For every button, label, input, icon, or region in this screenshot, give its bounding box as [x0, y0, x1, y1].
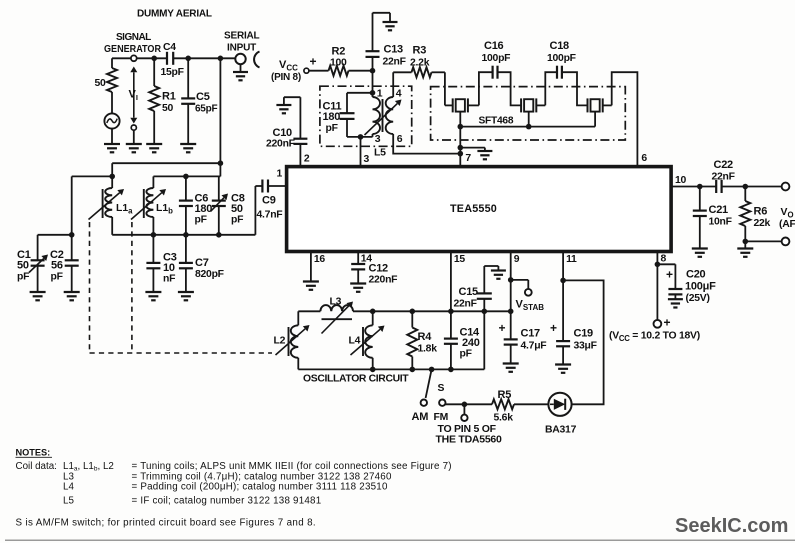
- svg-text:180: 180: [195, 203, 213, 215]
- svg-text:820pF: 820pF: [195, 269, 224, 280]
- svg-text:Coil data:: Coil data:: [16, 461, 57, 472]
- svg-text:C16: C16: [484, 40, 504, 52]
- svg-text:pF: pF: [460, 349, 472, 360]
- svg-text:2.2k: 2.2k: [410, 58, 430, 69]
- svg-text:8: 8: [661, 254, 667, 265]
- svg-text:L5: L5: [63, 496, 74, 507]
- svg-text:220nF: 220nF: [369, 275, 398, 286]
- svg-text:R5: R5: [498, 389, 512, 401]
- svg-text:OSCILLATOR CIRCUIT: OSCILLATOR CIRCUIT: [303, 374, 409, 385]
- svg-text:220nF: 220nF: [266, 139, 295, 150]
- svg-text:(AF: (AF: [779, 219, 795, 230]
- svg-text:SeekIC.com: SeekIC.com: [675, 515, 788, 537]
- svg-text:R6: R6: [754, 206, 768, 218]
- svg-text:C19: C19: [574, 328, 594, 340]
- svg-text:100μF: 100μF: [685, 281, 716, 293]
- svg-text:3: 3: [375, 133, 381, 145]
- svg-text:+: +: [666, 268, 673, 282]
- svg-text:pF: pF: [326, 123, 338, 134]
- svg-text:C20: C20: [686, 269, 706, 281]
- svg-text:C4: C4: [163, 42, 176, 53]
- svg-text:50: 50: [231, 203, 243, 215]
- svg-text:10nF: 10nF: [709, 217, 732, 228]
- svg-text:+: +: [664, 316, 671, 330]
- svg-text:FM: FM: [434, 412, 449, 423]
- svg-text:L4: L4: [63, 482, 74, 493]
- svg-text:+: +: [310, 55, 317, 69]
- svg-text:(25V): (25V): [686, 293, 710, 304]
- svg-text:C7: C7: [195, 257, 209, 269]
- svg-text:6: 6: [397, 133, 403, 145]
- svg-text:100pF: 100pF: [547, 53, 576, 64]
- svg-text:9: 9: [514, 254, 520, 265]
- svg-text:+: +: [499, 321, 506, 335]
- svg-text:L5: L5: [374, 147, 386, 159]
- svg-text:5.6k: 5.6k: [494, 413, 514, 424]
- svg-text:6: 6: [641, 153, 647, 164]
- svg-text:C15: C15: [459, 286, 479, 298]
- svg-text:DUMMY AERIAL: DUMMY AERIAL: [137, 9, 212, 20]
- svg-text:= IF coil; catalog number 312: = IF coil; catalog number 3122 138 91481: [132, 496, 322, 507]
- svg-text:S is AM/FM switch; for printed: S is AM/FM switch; for printed circuit b…: [16, 518, 316, 529]
- svg-text:22k: 22k: [754, 218, 771, 229]
- svg-text:pF: pF: [51, 272, 63, 283]
- svg-text:C10: C10: [273, 127, 293, 139]
- svg-text:10: 10: [675, 175, 687, 186]
- svg-text:4: 4: [396, 87, 402, 99]
- svg-text:BA317: BA317: [545, 425, 577, 436]
- svg-text:C21: C21: [709, 204, 729, 216]
- svg-text:TEA5550: TEA5550: [450, 203, 497, 215]
- svg-text:15: 15: [454, 254, 466, 265]
- svg-text:50: 50: [17, 260, 29, 272]
- svg-text:R1: R1: [162, 91, 176, 103]
- svg-text:1: 1: [277, 169, 283, 180]
- svg-text:SERIAL: SERIAL: [224, 31, 260, 42]
- svg-text:= Padding coil (200μH); catal: = Padding coil (200μH); catalog number 3…: [132, 482, 388, 493]
- svg-text:10: 10: [163, 262, 175, 274]
- svg-text:50: 50: [95, 78, 107, 89]
- svg-text:L2: L2: [274, 336, 286, 347]
- svg-text:4.7nF: 4.7nF: [257, 210, 283, 221]
- svg-text:GENERATOR: GENERATOR: [104, 44, 162, 55]
- svg-text:S: S: [438, 383, 445, 394]
- svg-text:33μF: 33μF: [574, 341, 597, 352]
- svg-text:100pF: 100pF: [482, 53, 511, 64]
- svg-text:22nF: 22nF: [383, 57, 406, 68]
- svg-text:3: 3: [364, 154, 370, 165]
- svg-text:L4: L4: [349, 336, 361, 347]
- svg-text:C17: C17: [521, 328, 541, 340]
- svg-text:1.8k: 1.8k: [418, 344, 438, 355]
- svg-text:R4: R4: [418, 331, 433, 343]
- svg-text:C9: C9: [262, 195, 276, 207]
- svg-text:C18: C18: [550, 40, 570, 52]
- svg-text:R2: R2: [332, 46, 346, 58]
- svg-text:50: 50: [162, 103, 174, 114]
- svg-text:15pF: 15pF: [161, 67, 184, 78]
- svg-text:pF: pF: [195, 215, 207, 226]
- svg-text:16: 16: [314, 254, 326, 265]
- svg-text:56: 56: [51, 260, 63, 272]
- svg-text:pF: pF: [17, 272, 29, 283]
- svg-text:C12: C12: [369, 263, 389, 275]
- svg-text:C5: C5: [196, 91, 210, 103]
- svg-text:1: 1: [377, 87, 383, 99]
- svg-text:nF: nF: [163, 274, 175, 285]
- svg-text:7: 7: [465, 153, 471, 164]
- svg-text:22nF: 22nF: [454, 299, 477, 310]
- svg-text:THE TDA5560: THE TDA5560: [436, 434, 503, 446]
- svg-text:AM: AM: [412, 411, 429, 423]
- svg-text:22nF: 22nF: [712, 172, 735, 183]
- svg-text:+: +: [550, 321, 557, 335]
- svg-text:240: 240: [462, 337, 480, 349]
- svg-text:(PIN 8): (PIN 8): [271, 72, 301, 83]
- svg-text:65pF: 65pF: [195, 104, 217, 115]
- svg-text:2: 2: [304, 154, 310, 165]
- svg-text:SIGNAL: SIGNAL: [116, 32, 151, 43]
- svg-text:SFT468: SFT468: [479, 116, 514, 127]
- svg-text:100: 100: [330, 58, 347, 69]
- svg-text:4.7μF: 4.7μF: [521, 341, 547, 352]
- svg-text:C13: C13: [384, 44, 404, 56]
- svg-text:L3: L3: [330, 297, 342, 308]
- svg-text:R3: R3: [413, 45, 427, 57]
- svg-text:11: 11: [566, 254, 577, 265]
- svg-text:NOTES:: NOTES:: [16, 448, 51, 458]
- svg-text:C22: C22: [714, 159, 734, 171]
- svg-text:INPUT: INPUT: [227, 43, 256, 54]
- svg-text:pF: pF: [231, 215, 243, 226]
- svg-text:180: 180: [323, 111, 341, 123]
